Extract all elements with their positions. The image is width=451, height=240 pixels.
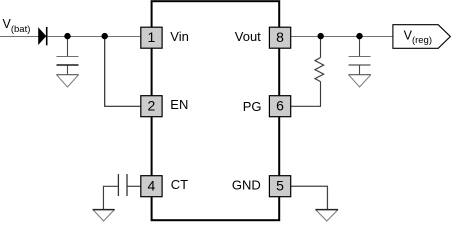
- svg-text:PG: PG: [243, 99, 262, 114]
- svg-text:EN: EN: [170, 97, 188, 112]
- svg-text:6: 6: [276, 97, 284, 113]
- svg-text:8: 8: [276, 29, 284, 45]
- svg-text:4: 4: [148, 177, 156, 193]
- svg-text:5: 5: [276, 177, 284, 193]
- svg-text:V(bat): V(bat): [3, 17, 31, 35]
- svg-text:CT: CT: [171, 177, 188, 192]
- svg-text:1: 1: [148, 29, 156, 45]
- svg-text:Vout: Vout: [235, 29, 261, 44]
- svg-text:2: 2: [148, 97, 156, 113]
- svg-text:Vin: Vin: [170, 29, 189, 44]
- svg-text:GND: GND: [232, 178, 261, 193]
